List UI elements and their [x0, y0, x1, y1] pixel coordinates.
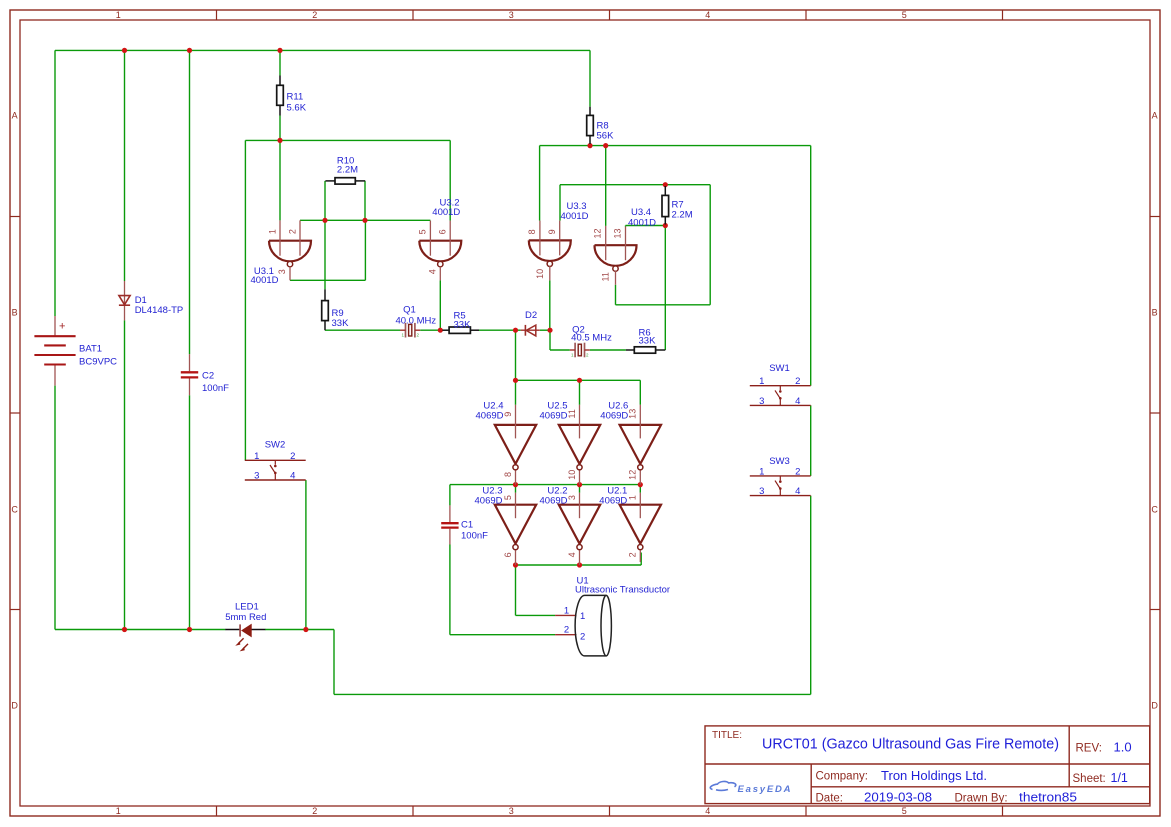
- wire U3.2 output drop: [439, 280, 441, 330]
- company field: [816, 769, 988, 783]
- wire U3.4 output drop: [615, 285, 617, 305]
- pin 13 of U3.4: [625, 227, 627, 261]
- inverter U2.6: [600, 400, 661, 470]
- pin number 2 U3.1: [287, 229, 297, 234]
- svg-text:1: 1: [254, 451, 259, 462]
- NOR gate U3.2: [419, 197, 461, 266]
- wire U3.4 pin12 drop: [605, 146, 607, 226]
- wire U3.1 output horizontal: [290, 279, 365, 281]
- pin number 10 U3.3: [535, 269, 545, 279]
- wire battery bottom: [54, 386, 56, 630]
- wire bottom bus: [334, 693, 811, 695]
- junction out bus 2: [577, 562, 582, 567]
- wire R8 bus: [540, 145, 811, 147]
- wire U3.4 output horizontal: [616, 304, 711, 306]
- junction inverter top bus 1: [513, 378, 518, 383]
- wire U3.1 output riser: [364, 220, 366, 280]
- svg-text:33K: 33K: [454, 320, 472, 331]
- resistor R11: [277, 76, 307, 116]
- pin number 2 U2.1: [628, 552, 638, 557]
- wire SW3 pin4 riser: [810, 496, 812, 695]
- wire R11 bottom to U3.1 pin1: [279, 116, 281, 221]
- wire SW1 pin2 drop: [810, 146, 812, 386]
- svg-text:4069D: 4069D: [540, 495, 568, 506]
- wire C1 bottom drop: [449, 545, 451, 635]
- pin number 4 U3.2: [427, 269, 437, 274]
- wire top supply bus: [55, 49, 590, 51]
- svg-text:1: 1: [267, 229, 277, 234]
- wire R10 right leg: [364, 181, 366, 220]
- junction R10 right: [362, 218, 367, 223]
- junction D2 out node: [547, 328, 552, 333]
- svg-text:4001D: 4001D: [628, 217, 656, 228]
- wire U2.3 pin5 stub: [515, 485, 517, 493]
- svg-text:4069D: 4069D: [540, 411, 568, 422]
- svg-text:6: 6: [503, 552, 513, 557]
- pin 13 of U2.6: [639, 405, 641, 439]
- svg-text:thetron85: thetron85: [1019, 790, 1077, 804]
- pin number 12 U2.6: [628, 470, 638, 480]
- EasyEDA logo: [710, 781, 792, 794]
- svg-text:2: 2: [564, 625, 569, 636]
- svg-text:5: 5: [902, 806, 907, 816]
- svg-text:3: 3: [759, 486, 764, 497]
- wire inverter out bus: [516, 564, 642, 566]
- svg-text:4: 4: [427, 269, 437, 274]
- switch SW3: [750, 456, 811, 497]
- battery BAT1 BC9VPC: [34, 316, 117, 386]
- resistor R8: [587, 107, 614, 144]
- pin 10 of U3.3: [549, 266, 551, 280]
- svg-text:3: 3: [254, 471, 259, 482]
- pin number 1 U3.1: [267, 229, 277, 234]
- svg-text:2: 2: [312, 10, 317, 20]
- svg-text:11: 11: [601, 272, 611, 281]
- wire D2 to node: [540, 329, 550, 331]
- svg-text:4069D: 4069D: [476, 411, 504, 422]
- pin 6 of U3.2: [449, 221, 451, 256]
- resistor R5: [442, 310, 479, 333]
- svg-text:4069D: 4069D: [599, 495, 627, 506]
- junction top bus C2: [187, 48, 192, 53]
- pin 8 of U3.3: [539, 221, 541, 256]
- svg-text:4069D: 4069D: [600, 411, 628, 422]
- NOR gate U3.1: [251, 241, 312, 286]
- junction mid bus 2: [577, 482, 582, 487]
- pin number 9 U3.3: [547, 229, 557, 234]
- NOR gate U3.3: [529, 201, 589, 267]
- svg-text:C: C: [11, 504, 18, 514]
- svg-text:2019-03-08: 2019-03-08: [864, 790, 932, 804]
- wire C1 top drop: [449, 485, 451, 506]
- pin number 6 U2.3: [503, 552, 513, 557]
- wire U3.3 pin9 net: [560, 184, 710, 186]
- wire R6 right riser: [664, 226, 666, 351]
- pin 1 of U3.1: [279, 220, 281, 255]
- svg-text:2: 2: [312, 806, 317, 816]
- svg-text:D: D: [11, 700, 18, 710]
- wire U2.2 pin3 stub: [579, 485, 581, 493]
- wire Q2 right to R6: [590, 349, 626, 351]
- wire U3.1 pin2 net: [300, 219, 430, 221]
- wire U2.1 pin1 stub: [639, 485, 641, 493]
- svg-text:1: 1: [116, 10, 121, 20]
- wire R11 top: [279, 50, 281, 75]
- junction top bus D1: [122, 48, 127, 53]
- pin 9 of U3.3: [559, 221, 561, 256]
- pin number 13 U2.6: [628, 409, 638, 419]
- pin number 3 U2.2: [567, 495, 577, 500]
- transducer U1 Ultrasonic Transductor: [555, 576, 670, 656]
- capacitor C2: [181, 371, 229, 395]
- wire bottom bus LED right: [265, 629, 334, 631]
- svg-text:D2: D2: [525, 310, 537, 321]
- svg-text:5.6K: 5.6K: [287, 103, 307, 114]
- svg-text:1: 1: [759, 376, 764, 387]
- wire SW2 pin1 riser: [244, 140, 246, 460]
- svg-text:2: 2: [795, 376, 800, 387]
- svg-text:LED1: LED1: [235, 602, 259, 613]
- junction R7 top: [663, 182, 668, 187]
- pin number 4 U2.2: [567, 552, 577, 557]
- svg-text:Tron Holdings Ltd.: Tron Holdings Ltd.: [881, 769, 987, 783]
- svg-text:2: 2: [580, 632, 585, 643]
- wire U3.2 pin6 drop: [449, 140, 451, 220]
- wire U3.3 output drop: [549, 280, 551, 330]
- svg-text:10: 10: [535, 269, 545, 279]
- wire R5 to D2: [479, 329, 521, 331]
- wire Q1 to R5: [420, 329, 442, 331]
- svg-text:13: 13: [612, 228, 622, 238]
- svg-text:9: 9: [547, 229, 557, 234]
- junction R7 bottom: [663, 223, 668, 228]
- svg-text:3: 3: [509, 806, 514, 816]
- svg-text:2: 2: [290, 451, 295, 462]
- svg-text:1: 1: [628, 495, 638, 500]
- sheet field: [1073, 771, 1128, 785]
- pin number 1 U2.1: [628, 495, 638, 500]
- svg-text:U3.4: U3.4: [631, 207, 651, 218]
- pin 6 of U2.3: [515, 550, 517, 565]
- wire U1 pin2 lead: [450, 634, 555, 636]
- pin number 5 U2.3: [503, 495, 513, 500]
- svg-text:DL4148-TP: DL4148-TP: [135, 305, 184, 316]
- wire oscillator row: [325, 329, 401, 331]
- wire C2 column bottom: [189, 395, 191, 629]
- svg-text:8: 8: [503, 472, 513, 477]
- resistor R6: [626, 328, 665, 354]
- wire C2 column top: [189, 50, 191, 354]
- wire U3.3 pin9 drop: [559, 185, 561, 221]
- title block frame: [705, 726, 1150, 804]
- junction bottom bus D1: [122, 627, 127, 632]
- junction mid bus 3: [638, 482, 643, 487]
- svg-text:2: 2: [628, 552, 638, 557]
- svg-text:Date:: Date:: [816, 792, 844, 804]
- svg-text:4: 4: [795, 486, 800, 497]
- resistor R10: [325, 156, 365, 185]
- inverter U2.2: [540, 486, 601, 550]
- wire inverter top bus: [516, 379, 641, 381]
- svg-text:BAT1: BAT1: [79, 344, 102, 355]
- inverter U2.5: [540, 400, 601, 470]
- svg-text:C2: C2: [202, 371, 214, 382]
- svg-text:4069D: 4069D: [475, 495, 503, 506]
- NOR gate U3.4: [595, 207, 657, 271]
- junction R5-D2 node: [513, 328, 518, 333]
- inverter U2.3: [475, 486, 537, 550]
- svg-text:3: 3: [759, 396, 764, 407]
- svg-text:10: 10: [567, 470, 577, 480]
- svg-text:SW1: SW1: [769, 363, 790, 374]
- junction bottom bus C2: [187, 627, 192, 632]
- svg-text:4: 4: [705, 806, 710, 816]
- pin number 11 U2.5: [567, 409, 577, 418]
- svg-text:4001D: 4001D: [561, 211, 589, 222]
- pin 4 of U2.2: [579, 550, 581, 565]
- pin number 13 U3.4: [612, 228, 622, 238]
- svg-text:33K: 33K: [332, 318, 350, 329]
- wire inverter mid bus: [450, 484, 640, 486]
- wire SW1-SW3 riser: [810, 405, 812, 476]
- diode D2: [521, 310, 540, 336]
- junction R10 left: [322, 218, 327, 223]
- wire U2.6 pin13 stub: [639, 380, 641, 405]
- pin number 5 U3.2: [418, 229, 428, 234]
- svg-text:4: 4: [795, 396, 800, 407]
- wire R7 bottom link: [626, 225, 666, 227]
- junction inverter top bus 2: [577, 378, 582, 383]
- pin number 8 U3.3: [527, 229, 537, 234]
- svg-text:C1: C1: [461, 520, 473, 531]
- svg-text:2.2M: 2.2M: [672, 209, 693, 220]
- junction out bus 1: [513, 562, 518, 567]
- svg-text:9: 9: [503, 412, 513, 417]
- svg-text:1: 1: [580, 611, 585, 622]
- capacitor C1: [441, 520, 488, 542]
- junction top bus R11: [277, 48, 282, 53]
- svg-text:TITLE:: TITLE:: [712, 730, 742, 741]
- svg-text:B: B: [1152, 307, 1158, 317]
- svg-text:4001D: 4001D: [432, 207, 460, 218]
- svg-text:4: 4: [567, 552, 577, 557]
- wire U3.4 pin13 stub: [625, 226, 627, 227]
- pin 2 of U2.1: [639, 550, 641, 562]
- svg-text:5: 5: [503, 495, 513, 500]
- svg-text:2.2M: 2.2M: [337, 165, 358, 176]
- pin 3 of U3.1: [289, 266, 291, 280]
- wire bottom-left bus: [55, 629, 225, 631]
- svg-text:3: 3: [509, 10, 514, 20]
- junction R11 bottom: [277, 138, 282, 143]
- svg-text:3: 3: [277, 269, 287, 274]
- svg-text:56K: 56K: [597, 130, 615, 141]
- junction Q1 node: [438, 328, 443, 333]
- pin 3 of U2.2: [579, 493, 581, 519]
- pin number 9 U2.4: [503, 412, 513, 417]
- svg-text:1/1: 1/1: [1111, 771, 1128, 785]
- pin 4 of U3.2: [439, 266, 441, 280]
- svg-text:4: 4: [705, 10, 710, 20]
- wire U2.1 output riser: [640, 553, 642, 566]
- svg-text:A: A: [12, 110, 18, 120]
- junction mid bus 1: [513, 482, 518, 487]
- svg-text:100nF: 100nF: [202, 383, 229, 394]
- svg-text:2: 2: [287, 229, 297, 234]
- wire U1 pin1 drop: [515, 565, 517, 615]
- pin 12 of U2.6: [639, 471, 641, 485]
- svg-text:13: 13: [628, 409, 638, 419]
- svg-text:1: 1: [564, 605, 569, 616]
- wire R8 top drop: [589, 50, 591, 106]
- svg-text:BC9VPC: BC9VPC: [79, 357, 117, 368]
- svg-text:2: 2: [795, 466, 800, 477]
- crystal Q2: [570, 324, 612, 357]
- pin 5 of U2.3: [515, 493, 517, 519]
- svg-text:5: 5: [418, 229, 428, 234]
- pin number 3 U3.1: [277, 269, 287, 274]
- svg-text:URCT01 (Gazco Ultrasound Gas F: URCT01 (Gazco Ultrasound Gas Fire Remote…: [762, 735, 1059, 752]
- crystal Q1: [395, 305, 436, 338]
- diode D1 DL4148-TP: [119, 281, 183, 320]
- switch SW1: [750, 363, 811, 407]
- svg-text:+: +: [59, 321, 65, 333]
- junction R8 bottom: [587, 143, 592, 148]
- inverter U2.1: [599, 486, 661, 550]
- wire R10 left leg: [324, 181, 326, 289]
- pin 12 of U3.4: [605, 226, 607, 260]
- wire bottom drop: [333, 630, 335, 695]
- svg-text:C: C: [1151, 504, 1158, 514]
- svg-text:Q1: Q1: [403, 305, 416, 316]
- wire SW2 pin4 drop: [305, 480, 307, 629]
- pin 5 of U3.2: [429, 221, 431, 256]
- wire feedback riser: [709, 185, 711, 305]
- wire battery top: [54, 50, 56, 316]
- pin 9 of U2.4: [515, 405, 517, 439]
- date field: [816, 790, 1078, 804]
- resistor R9: [322, 289, 349, 330]
- pin number 10 U2.5: [567, 470, 577, 480]
- svg-text:SW3: SW3: [769, 456, 790, 467]
- wire D1 column top: [124, 50, 126, 281]
- svg-text:B: B: [12, 307, 18, 317]
- capacitor C1 pins: [449, 505, 451, 544]
- junction pin12 bus: [603, 143, 608, 148]
- svg-text:REV:: REV:: [1076, 742, 1102, 754]
- rev field: [1076, 740, 1132, 755]
- pin number 11 U3.4: [601, 272, 611, 281]
- wire U2.4 pin9 stub: [515, 380, 517, 405]
- svg-text:5: 5: [902, 10, 907, 20]
- svg-text:1: 1: [759, 466, 764, 477]
- pin 10 of U2.5: [579, 471, 581, 485]
- svg-text:EasyEDA: EasyEDA: [738, 784, 793, 795]
- wire U2.5 pin11 stub: [579, 380, 581, 405]
- svg-text:D: D: [1151, 700, 1158, 710]
- svg-text:4: 4: [290, 471, 295, 482]
- wire Q2 left: [550, 349, 570, 351]
- svg-text:Company:: Company:: [816, 771, 868, 783]
- svg-text:Sheet:: Sheet:: [1073, 773, 1106, 785]
- svg-text:100nF: 100nF: [461, 531, 488, 542]
- svg-text:12: 12: [628, 470, 638, 480]
- svg-text:Ultrasonic Transductor: Ultrasonic Transductor: [575, 585, 670, 596]
- svg-text:40.5 MHz: 40.5 MHz: [571, 332, 612, 343]
- wire Q2 branch drop: [549, 330, 551, 350]
- svg-text:8: 8: [527, 229, 537, 234]
- svg-text:4001D: 4001D: [251, 275, 279, 286]
- wire U1 pin1 lead: [516, 614, 556, 616]
- pin 8 of U2.4: [515, 471, 517, 485]
- svg-text:5mm Red: 5mm Red: [225, 612, 266, 623]
- pin 1 of U2.1: [639, 493, 641, 519]
- svg-text:12: 12: [593, 228, 603, 238]
- svg-text:1: 1: [116, 806, 121, 816]
- pin 11 of U2.5: [579, 405, 581, 439]
- wire D2 branch drop: [515, 330, 517, 380]
- wire net R11-SW2 horizontal: [245, 139, 450, 141]
- svg-text:3: 3: [567, 495, 577, 500]
- svg-text:SW2: SW2: [265, 439, 286, 450]
- wire D1 column bottom: [124, 320, 126, 629]
- inverter U2.4: [476, 400, 537, 470]
- junction bottom bus SW2: [303, 627, 308, 632]
- svg-text:A: A: [1152, 110, 1158, 120]
- pin number 8 U2.4: [503, 472, 513, 477]
- LED LED1 5mm Red: [225, 602, 266, 652]
- pin 11 of U3.4: [615, 271, 617, 285]
- title text: [712, 730, 1059, 753]
- pin number 12 U3.4: [593, 228, 603, 238]
- svg-text:33K: 33K: [639, 335, 657, 346]
- svg-text:R11: R11: [287, 92, 304, 103]
- switch SW2: [245, 439, 306, 481]
- svg-text:40.0 MHz: 40.0 MHz: [395, 315, 436, 326]
- pin 2 of U3.1: [299, 220, 301, 255]
- capacitor C2 pins: [189, 354, 191, 395]
- svg-text:6: 6: [438, 229, 448, 234]
- pin number 6 U3.2: [438, 229, 448, 234]
- svg-text:1.0: 1.0: [1114, 740, 1132, 755]
- resistor R7: [662, 186, 693, 225]
- svg-text:Drawn By:: Drawn By:: [955, 792, 1008, 804]
- wire U3.3 pin8 drop: [539, 146, 541, 221]
- svg-text:11: 11: [567, 409, 577, 418]
